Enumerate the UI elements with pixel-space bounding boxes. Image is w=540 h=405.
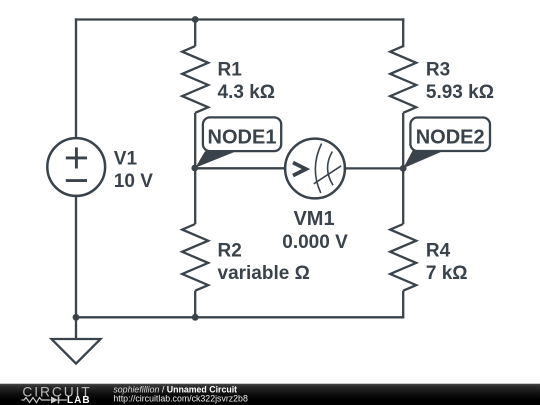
junction dot node A top	[192, 16, 199, 23]
svg-text:7 kΩ: 7 kΩ	[426, 263, 468, 284]
wire right rail corner top	[402, 20, 404, 47]
wire bottom rail	[76, 316, 403, 318]
wire voltmeter to node2	[345, 167, 403, 169]
footer logo zigzag diode	[22, 398, 67, 403]
resistor R2	[182, 168, 208, 317]
resistor R4	[390, 168, 416, 317]
wire left rail lower	[75, 196, 77, 317]
svg-text:VM1: VM1	[293, 208, 334, 230]
voltmeter VM1	[285, 139, 345, 199]
svg-text:http://circuitlab.com/ck322jsv: http://circuitlab.com/ck322jsvrz2b8	[113, 394, 248, 404]
svg-text:NODE2: NODE2	[416, 127, 485, 149]
svg-text:NODE1: NODE1	[208, 127, 277, 149]
svg-text:LAB: LAB	[67, 395, 91, 405]
svg-text:V1: V1	[114, 149, 138, 170]
junction dot NODE2	[400, 165, 407, 172]
svg-text:R2: R2	[218, 240, 242, 261]
svg-text:R3: R3	[426, 60, 450, 81]
voltage source V1	[47, 138, 105, 196]
node NODE1 flag pointer	[195, 151, 236, 168]
junction dot NODE1	[191, 165, 198, 172]
resistor R3	[390, 46, 416, 168]
resistor R1	[182, 20, 208, 169]
junction dot bottom left	[73, 314, 80, 321]
footer bar	[0, 384, 540, 405]
node NODE1 flag box	[203, 117, 281, 151]
node NODE2 flag box	[410, 118, 490, 152]
wire node1 to voltmeter	[195, 167, 285, 169]
node NODE2 flag pointer	[403, 151, 444, 169]
svg-text:R4: R4	[426, 240, 451, 261]
svg-text:4.3 kΩ: 4.3 kΩ	[218, 82, 276, 103]
wire top rail	[76, 18, 403, 20]
svg-text:10 V: 10 V	[114, 171, 153, 192]
svg-text:variable Ω: variable Ω	[218, 263, 310, 284]
wire left rail upper	[75, 20, 77, 139]
ground symbol	[52, 317, 101, 363]
svg-text:0.000 V: 0.000 V	[282, 232, 348, 253]
svg-text:5.93 kΩ: 5.93 kΩ	[426, 82, 494, 103]
junction dot bottom middle	[192, 314, 199, 321]
svg-text:R1: R1	[218, 60, 243, 81]
